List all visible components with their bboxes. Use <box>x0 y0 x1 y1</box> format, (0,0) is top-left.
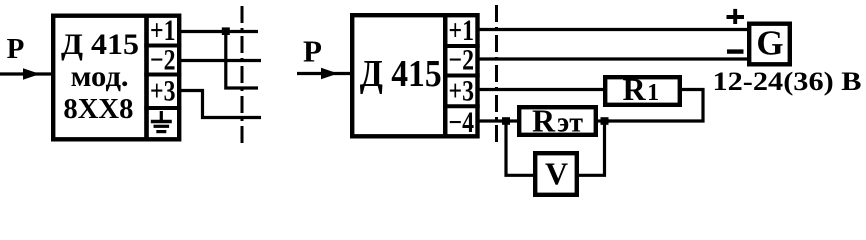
svg-text:−2: −2 <box>449 44 475 77</box>
svg-text:+1: +1 <box>449 14 475 47</box>
svg-text:G: G <box>756 24 783 63</box>
wire from pin +3 (left) <box>181 91 261 118</box>
wire pressure input line (left) <box>0 72 53 75</box>
wire pin -4 to Rэт <box>480 119 520 122</box>
arrowhead pressure input (left) <box>23 68 40 80</box>
voltmeter V <box>535 153 577 195</box>
junction dot on +1 wire <box>222 27 230 35</box>
svg-text:Д 415: Д 415 <box>61 28 139 61</box>
wire pin -2 to G minus terminal <box>480 57 750 60</box>
junction node B <box>601 117 609 125</box>
svg-text:−4: −4 <box>449 106 475 139</box>
arrowhead pressure input (right) <box>321 68 338 80</box>
wire voltmeter V up to node B <box>577 121 605 175</box>
plus polarity label at G <box>727 9 745 24</box>
transmitter U1 body (Д 415 мод. 8ХХ8) <box>53 16 146 140</box>
wire node A down to voltmeter V <box>506 121 535 175</box>
svg-text:Р: Р <box>303 34 322 69</box>
svg-text:V: V <box>545 156 568 192</box>
wire R1 output loop down to node B <box>605 90 704 122</box>
terminal block of U1 <box>144 16 181 140</box>
wire pin +1 to G plus terminal <box>480 28 750 31</box>
wire from pin -2 (left) <box>181 59 261 62</box>
ground terminal symbol (U1) <box>151 111 172 132</box>
wire Rэт to node B <box>596 119 610 122</box>
wire pressure input line (right) <box>297 72 352 75</box>
svg-text:12-24(36) В: 12-24(36) В <box>713 67 862 96</box>
svg-text:−2: −2 <box>150 44 176 77</box>
resistor Rэт <box>519 103 596 139</box>
minus polarity label at G <box>727 49 744 53</box>
wire branch down from +1 junction <box>226 32 258 89</box>
svg-text:8ХХ8: 8ХХ8 <box>63 93 133 125</box>
power supply G (generator) <box>749 24 790 65</box>
junction node A on -4 wire <box>502 117 510 125</box>
terminal block of U2 <box>443 15 480 136</box>
svg-text:Д 415: Д 415 <box>360 53 442 95</box>
svg-text:мод.: мод. <box>71 60 129 93</box>
wire from pin +1 (left) <box>181 30 258 33</box>
enclosure boundary dash-dot line (left) <box>241 6 244 146</box>
svg-text:Rэт: Rэт <box>532 103 583 139</box>
svg-text:Р: Р <box>7 33 25 65</box>
resistor R1 <box>605 71 680 107</box>
svg-text:+1: +1 <box>150 14 176 47</box>
svg-text:+3: +3 <box>449 75 475 108</box>
wire pin +3 to R1 <box>480 88 606 91</box>
transmitter U2 body (Д 415) <box>352 15 445 136</box>
svg-text:+3: +3 <box>150 75 176 108</box>
enclosure boundary dash-dot line (right) <box>495 5 498 147</box>
